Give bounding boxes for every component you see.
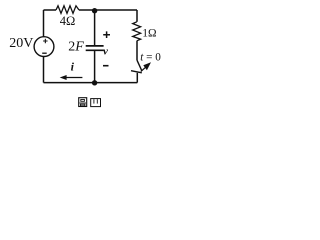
switch closing arrow (141, 67, 146, 71)
wire right rail lower (136, 73, 138, 83)
voltage source V1 circle (34, 37, 54, 57)
caption character tu (figure) (79, 98, 87, 107)
wire left rail upper (43, 10, 45, 37)
wire top rail right of resistor (79, 9, 137, 11)
resistor R1 4ohm zigzag (56, 6, 79, 14)
plus polarity mark in source (43, 39, 48, 44)
svg-text:1Ω: 1Ω (142, 28, 156, 40)
capacitor C1 bottom plate (86, 49, 104, 51)
svg-text:v: v (103, 46, 108, 58)
caption character four (91, 99, 101, 107)
current i arrow (65, 77, 82, 79)
svg-text:4Ω: 4Ω (60, 14, 76, 28)
capacitor C1 top plate (86, 45, 104, 47)
node B junction dot bottom (92, 80, 97, 85)
plus sign of v (103, 31, 110, 38)
svg-text:2F: 2F (68, 40, 84, 55)
minus sign of v (103, 65, 109, 67)
wire right rail middle (136, 41, 138, 61)
switch fixed contact tick (131, 71, 142, 73)
wire capacitor branch upper (94, 11, 96, 46)
svg-text:20V: 20V (9, 36, 33, 51)
minus polarity mark in source (42, 52, 47, 54)
wire capacitor branch lower (94, 51, 96, 83)
wire left rail lower (43, 57, 45, 83)
svg-text:t = 0: t = 0 (140, 51, 161, 63)
wire top rail (44, 9, 57, 11)
switch S1 blade (137, 60, 142, 71)
node A junction dot top (92, 8, 97, 13)
resistor R2 1ohm vertical zigzag (133, 22, 141, 41)
wire bottom rail (44, 82, 138, 84)
wire right rail upper (136, 10, 138, 22)
